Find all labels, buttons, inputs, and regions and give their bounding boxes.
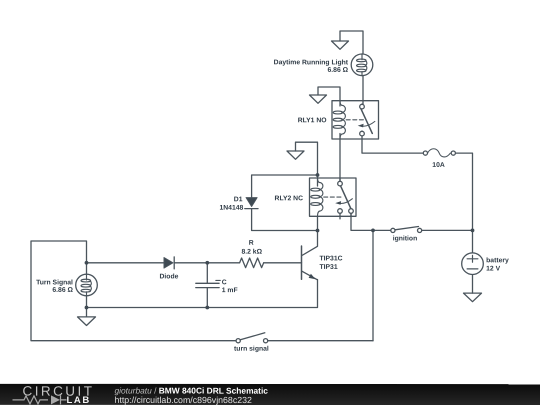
svg-text:LAB: LAB [66, 395, 90, 405]
svg-text:8.2 kΩ: 8.2 kΩ [241, 249, 262, 256]
svg-text:RLY2 NC: RLY2 NC [275, 195, 304, 202]
svg-text:TIP31C: TIP31C [319, 255, 342, 262]
svg-text:C: C [222, 279, 227, 286]
svg-text:D1: D1 [234, 196, 243, 203]
svg-text:6.86 Ω: 6.86 Ω [52, 287, 73, 294]
svg-text:1 mF: 1 mF [222, 287, 238, 294]
svg-text:Turn Signal: Turn Signal [36, 279, 73, 286]
svg-text:turn signal: turn signal [234, 346, 269, 353]
svg-text:ignition: ignition [393, 235, 418, 242]
svg-text:10A: 10A [432, 162, 445, 169]
svg-text:Diode: Diode [160, 273, 179, 280]
svg-text:Daytime Running Light: Daytime Running Light [274, 59, 349, 66]
svg-text:6.86 Ω: 6.86 Ω [327, 67, 348, 74]
svg-text:1N4148: 1N4148 [219, 205, 243, 212]
svg-text:TIP31: TIP31 [319, 264, 337, 271]
svg-text:12 V: 12 V [486, 266, 500, 273]
svg-text:http://circuitlab.com/c896vjn6: http://circuitlab.com/c896vjn68c232 [114, 395, 252, 405]
svg-text:battery: battery [486, 257, 509, 264]
svg-text:R: R [249, 240, 254, 247]
svg-text:RLY1 NO: RLY1 NO [298, 117, 327, 124]
